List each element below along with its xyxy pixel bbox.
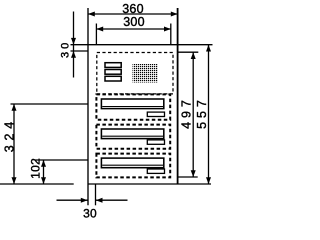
svg-text:324: 324 xyxy=(3,117,17,152)
svg-text:30: 30 xyxy=(59,40,71,58)
svg-text:300: 300 xyxy=(123,15,144,29)
svg-text:30: 30 xyxy=(83,207,97,221)
svg-text:497: 497 xyxy=(180,96,194,129)
svg-text:360: 360 xyxy=(122,2,143,16)
svg-text:102: 102 xyxy=(28,158,42,179)
svg-text:557: 557 xyxy=(195,96,209,129)
